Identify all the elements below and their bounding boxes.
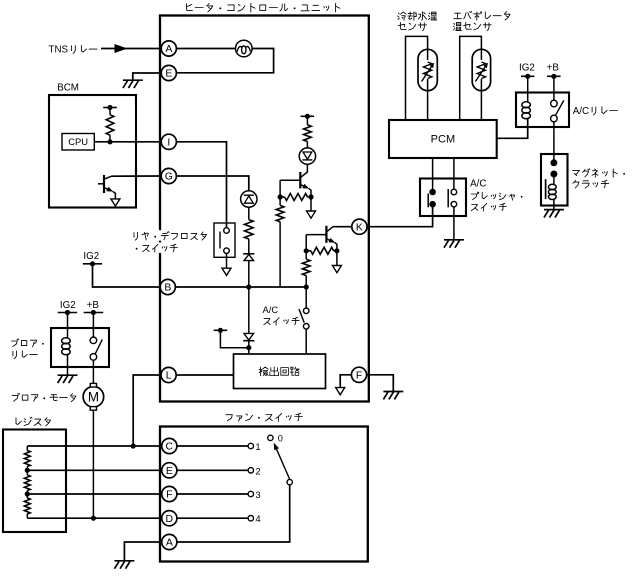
svg-text:4: 4 (256, 514, 261, 524)
svg-text:IG2: IG2 (519, 63, 535, 74)
svg-text:K: K (356, 222, 363, 233)
svg-text:1: 1 (256, 442, 261, 452)
svg-text:A/C: A/C (263, 304, 279, 315)
svg-text:D: D (166, 514, 174, 525)
svg-text:CPU: CPU (68, 136, 88, 147)
svg-text:BCM: BCM (57, 83, 79, 94)
svg-text:PCM: PCM (431, 134, 455, 146)
svg-text:2: 2 (256, 466, 261, 476)
svg-text:+B: +B (547, 63, 560, 74)
svg-text:0: 0 (278, 434, 283, 444)
svg-text:A/C: A/C (573, 106, 589, 117)
svg-text:3: 3 (256, 490, 261, 500)
svg-text:A: A (166, 538, 173, 549)
svg-text:C: C (166, 442, 174, 453)
svg-text:A/C: A/C (470, 178, 486, 189)
svg-text:A: A (165, 44, 172, 55)
svg-text:B: B (164, 283, 171, 294)
svg-text:L: L (166, 371, 172, 382)
svg-text:E: E (166, 466, 173, 477)
svg-text:IG2: IG2 (83, 251, 99, 262)
svg-text:E: E (165, 69, 172, 80)
svg-text:G: G (165, 172, 173, 183)
svg-text:F: F (356, 371, 362, 382)
svg-text:TNS: TNS (49, 44, 69, 55)
svg-text:IG2: IG2 (60, 300, 76, 311)
svg-text:F: F (166, 490, 172, 501)
svg-text:+B: +B (87, 300, 100, 311)
svg-text:M: M (88, 390, 99, 405)
svg-text:I: I (167, 138, 170, 149)
